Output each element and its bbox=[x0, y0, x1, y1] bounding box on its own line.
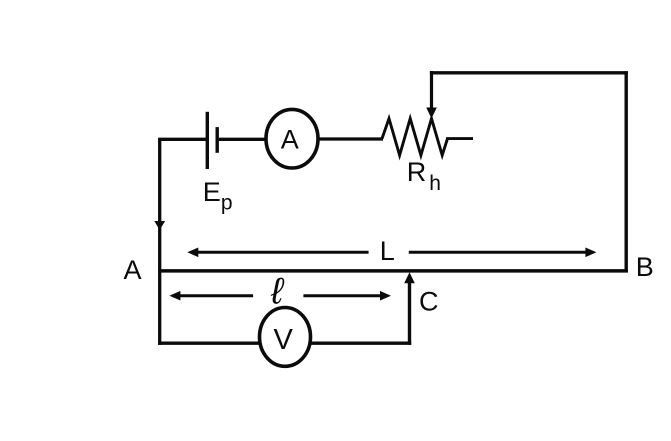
wire: jockey leg C vertical bbox=[408, 281, 411, 345]
wire: rheostat right stub terminal bbox=[446, 137, 473, 140]
ammeter U1 circle bbox=[266, 109, 318, 168]
svg-text:V: V bbox=[274, 324, 294, 356]
wire: bottom left (A down-leg to voltmeter) bbox=[158, 342, 260, 345]
current-direction arrowhead on left wire (pointing down) bbox=[154, 221, 165, 230]
dimension arrow L right half (arrowhead at B side) bbox=[409, 251, 593, 254]
battery Ep long plate bbox=[206, 112, 209, 169]
rheostat wiper arrowhead (pointing down onto zigzag) bbox=[426, 108, 437, 119]
svg-text:A: A bbox=[281, 124, 299, 154]
svg-text:A: A bbox=[124, 255, 142, 285]
wire: potentiometer wire A to B bbox=[158, 269, 628, 273]
wire: battery to ammeter bbox=[219, 138, 267, 141]
battery Ep short plate bbox=[215, 127, 218, 153]
voltmeter U2 circle bbox=[260, 308, 311, 367]
dimension arrow L left half (arrowhead at A side) bbox=[191, 251, 369, 254]
svg-text:B: B bbox=[636, 252, 654, 282]
svg-text:C: C bbox=[419, 286, 439, 316]
wire: voltmeter to jockey leg bbox=[310, 342, 412, 345]
wire: right vertical down to B bbox=[625, 71, 628, 272]
dimension arrow l left half bbox=[173, 294, 253, 297]
rheostat wiper arrow line bbox=[430, 71, 433, 109]
jockey arrowhead at C (pointing up to wire) bbox=[404, 272, 415, 283]
svg-text:h: h bbox=[429, 172, 441, 195]
svg-text:Ep: Ep bbox=[203, 177, 233, 215]
svg-text:ℓ: ℓ bbox=[270, 271, 285, 312]
wire: top horizontal (wiper to right side) bbox=[430, 71, 628, 74]
wire: left vertical (battery negative to A to voltmeter loop) bbox=[158, 138, 161, 345]
wire: ammeter to rheostat bbox=[318, 137, 383, 140]
rheostat Rh zigzag resistor body bbox=[382, 119, 448, 156]
dimension arrow l right half bbox=[303, 294, 387, 297]
svg-text:R: R bbox=[407, 157, 427, 187]
wire: battery left lead bbox=[158, 138, 206, 141]
svg-text:L: L bbox=[380, 236, 395, 266]
